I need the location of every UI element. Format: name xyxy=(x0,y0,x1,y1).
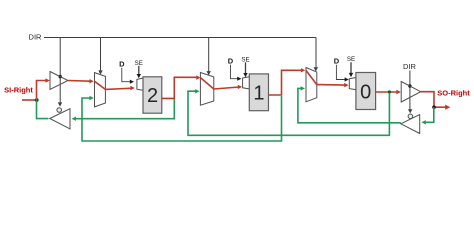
tri-state buffer U2 (inverted enable) xyxy=(50,109,70,129)
arrowhead into U1 xyxy=(45,78,49,82)
arrowhead SE FF0 xyxy=(349,73,353,77)
node DIR-U1 junction dot xyxy=(59,75,62,78)
arrowhead into U3 xyxy=(396,90,400,94)
arrowhead D FF1 xyxy=(237,77,241,81)
svg-text:1: 1 xyxy=(253,83,264,105)
wire green FF0 Q to mux M2 lower input xyxy=(188,91,389,135)
svg-text:SE: SE xyxy=(135,60,143,67)
bubble U2 enable xyxy=(57,108,62,113)
svg-text:D: D xyxy=(119,60,125,69)
mux M1 xyxy=(95,73,106,107)
wire green FF1 Q to mux M1 lower input xyxy=(82,96,282,141)
wire U1 output to mux M1 xyxy=(68,80,90,83)
svg-text:SO-Right: SO-Right xyxy=(437,88,470,97)
flip-flop FF2 xyxy=(143,77,162,113)
arrowhead into M2 xyxy=(196,75,200,79)
wire M2 output to FF1 D-mux xyxy=(214,87,239,89)
wire green SI node down to buffer U2 output xyxy=(37,99,49,119)
input mux glyph on FF0 xyxy=(349,77,356,89)
tri-state buffer U4 (inverted enable) xyxy=(401,115,420,134)
wire DIR drop to mux M2 select xyxy=(208,38,210,73)
wire DIR bus top xyxy=(44,37,316,39)
wire D to FF0 xyxy=(336,65,346,80)
wire FF2 Q green feedback to U2 input xyxy=(75,99,175,119)
wire SO pin green down to U4 input xyxy=(424,107,433,122)
wire green U4 output to mux M3 lower input xyxy=(298,88,401,122)
node SI pin junction dot xyxy=(35,98,39,102)
arrowhead into M1 green xyxy=(89,96,93,100)
arrowhead D FF2 xyxy=(130,80,134,84)
arrowhead SE FF2 xyxy=(137,74,141,78)
node SO pin junction dot xyxy=(432,105,436,109)
wire M3 output to FF0 D-mux xyxy=(317,84,346,87)
wire U3 output to SO-Right pin xyxy=(421,92,447,108)
wire FF1 Q output to node xyxy=(269,70,303,95)
svg-text:SI-Right: SI-Right xyxy=(4,86,33,95)
wire M1 selected path (red) xyxy=(95,81,106,89)
arrowhead into U2 xyxy=(72,117,76,121)
svg-text:D: D xyxy=(228,56,234,65)
mux M2 xyxy=(200,73,213,106)
svg-text:DIR: DIR xyxy=(29,33,43,42)
wire DIR corner drop to mux M3 select xyxy=(315,38,317,69)
arrowhead into U2 bubble xyxy=(58,102,62,106)
arrowhead M2 select xyxy=(207,71,211,75)
arrowhead D FF0 xyxy=(345,77,349,81)
node DIR-U3 junction dot xyxy=(408,84,411,87)
input mux glyph on FF1 xyxy=(243,77,250,89)
svg-text:SE: SE xyxy=(347,56,355,63)
arrowhead M1 select xyxy=(98,70,102,74)
wire D to FF1 xyxy=(231,65,239,79)
wire FF0 Q output to buffer U3 xyxy=(376,91,398,93)
arrowhead into M1 xyxy=(89,79,93,83)
wire SI-Right pin stub xyxy=(22,99,37,101)
svg-text:2: 2 xyxy=(147,85,158,107)
wire SE to FF2 xyxy=(138,66,140,75)
wire SE to FF0 xyxy=(350,62,352,73)
flip-flop FF1 xyxy=(249,74,268,111)
arrowhead into M3 xyxy=(301,68,305,72)
wire D to FF2 xyxy=(122,68,131,82)
arrowhead M3 select xyxy=(314,67,318,71)
svg-text:0: 0 xyxy=(360,81,371,103)
tri-state buffer U1 xyxy=(50,72,68,90)
bubble U4 enable xyxy=(408,114,413,119)
svg-text:D: D xyxy=(334,56,340,65)
svg-text:DIR: DIR xyxy=(403,62,417,71)
wire DIR drop to buffer U1 and U2 enable xyxy=(59,38,61,104)
arrowhead into M3 green xyxy=(301,86,305,90)
arrowhead SE FF1 xyxy=(243,73,247,77)
tri-state buffer U3 xyxy=(401,82,421,103)
wire M1 output to FF2 D-mux xyxy=(105,88,131,89)
wire M2 selected path (red) xyxy=(200,78,213,89)
wire DIR drop to mux M1 select xyxy=(100,38,102,72)
arrowhead into M2 green xyxy=(195,89,199,93)
input mux glyph on FF2 xyxy=(137,78,144,90)
arrowhead into FF1 input xyxy=(238,85,242,89)
arrowhead SO-Right xyxy=(445,105,450,110)
wire SE to FF1 xyxy=(245,62,247,74)
arrowhead into FF0 input xyxy=(344,83,348,87)
wire M3 selected path (red) xyxy=(306,70,317,84)
wire SI pin up to buffer U1 input xyxy=(37,81,47,101)
arrowhead into U4 bubble xyxy=(408,109,412,113)
flip-flop FF0 xyxy=(356,73,376,110)
wire DIR right drop through buffer U3 to U4 bubble xyxy=(409,71,411,111)
arrowhead into FF2 input xyxy=(130,86,134,90)
arrowhead into U4 xyxy=(421,120,425,124)
wire FF2 Q output to node xyxy=(162,77,198,98)
mux M3 xyxy=(306,68,317,102)
svg-text:SE: SE xyxy=(241,56,249,63)
node FF0 Q feedback junction xyxy=(388,90,391,93)
